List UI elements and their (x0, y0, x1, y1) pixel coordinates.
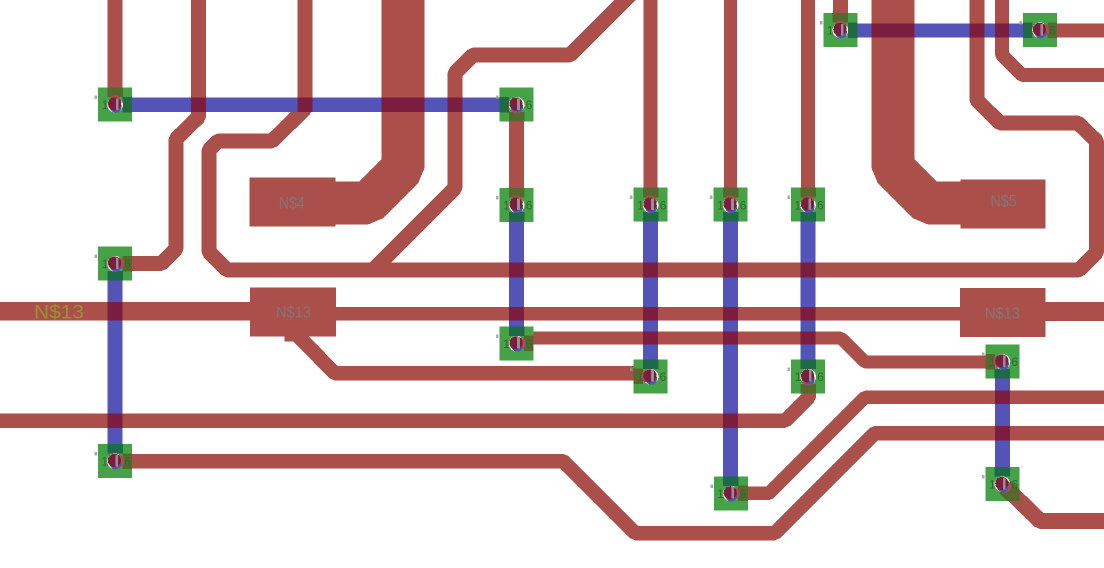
junction overlap y270 band (509, 263, 524, 278)
wire bottom-layer pad P7 to pad P14 (723, 205, 738, 494)
svg-text:6: 6 (1049, 24, 1056, 38)
svg-text:6: 6 (124, 257, 131, 271)
svg-text:6: 6 (1011, 478, 1018, 492)
wire top-layer into pad P1 (108, 0, 123, 105)
wire top-layer wide bus right (893, 0, 962, 203)
junction overlap y420 band (108, 413, 123, 428)
svg-text:N$13: N$13 (34, 302, 84, 323)
junction overlap y270 band (643, 263, 658, 278)
wire top-layer into pad P3 (833, 0, 848, 30)
junction overlap N$13 band (509, 307, 524, 321)
wire top-layer pad P11 to pad P15 (517, 338, 1003, 362)
pad P2 (through-hole via) (496, 88, 534, 122)
wire top-layer vertical x198 jog to pad P9 (115, 0, 199, 264)
svg-text:6: 6 (526, 198, 533, 212)
svg-text:N$13: N$13 (276, 304, 311, 321)
wire top-layer wide bus left (334, 0, 403, 203)
svg-text:6: 6 (660, 370, 667, 384)
svg-text:6: 6 (740, 487, 747, 501)
pad P4 (through-hole via) (1020, 13, 1058, 47)
wire top-layer pad P14 to band y397 (731, 397, 1104, 493)
wire net N$13 horizontal middle (330, 307, 965, 321)
junction overlap y270 band (723, 263, 738, 278)
junction overlap y420 band (723, 413, 738, 428)
wire bottom-layer pad P15 to pad P16 (995, 362, 1010, 485)
junction overlap (382, 97, 425, 112)
svg-text:6: 6 (526, 337, 533, 351)
svg-text:6: 6 (1011, 355, 1018, 369)
pad P7 (through-hole via) (710, 188, 748, 222)
svg-text:6: 6 (124, 455, 131, 469)
wire top-layer into pad P7 (724, 0, 737, 205)
net label block N$13 right (960, 288, 1046, 337)
junction overlap N$13 band (723, 307, 738, 321)
wire top-layer from pad P4 to right edge (1040, 24, 1104, 38)
wire bottom-layer pad P6 to pad P12 (643, 205, 658, 377)
pad P14 (through-hole via) (710, 476, 748, 510)
pad P9 (through-hole via) (95, 247, 133, 281)
junction overlap band2 (723, 332, 738, 345)
pad P3 (through-hole via) (820, 13, 858, 47)
wire bottom-layer pad P3 to pad P4 (840, 24, 1040, 38)
junction overlap band4 (995, 426, 1010, 441)
wire top-layer band y420 to pad P13 (0, 376, 809, 420)
wire bottom-layer pad P9 to pad P10 (108, 264, 123, 461)
pad P13 (through-hole via) (788, 359, 826, 393)
pad P10 (through-hole via) (95, 444, 133, 478)
wire top-layer big loop y270 (209, 0, 1097, 270)
junction overlap band2 (801, 332, 816, 345)
net label block N$13 left (250, 288, 336, 337)
pad P12 (through-hole via) (630, 359, 668, 393)
wire bottom-layer pad P5 to pad P11 (509, 205, 524, 344)
svg-text:6: 6 (817, 370, 824, 384)
junction overlap (448, 97, 463, 112)
svg-text:N$4: N$4 (279, 193, 305, 212)
junction overlap N$13 band (108, 302, 123, 321)
junction overlap (995, 24, 1009, 38)
wire bottom-layer pad P8 to pad P13 (801, 205, 816, 377)
wire net N$13 horizontal right (1041, 302, 1104, 321)
wire top-layer pad P2 to pad P5 (509, 105, 524, 205)
svg-text:6: 6 (740, 198, 747, 212)
wire top-layer pad P16 to bottom right (1002, 484, 1104, 521)
wire net N$13 horizontal left (0, 302, 255, 321)
svg-text:N$13: N$13 (985, 306, 1020, 323)
pad P11 (through-hole via) (496, 326, 534, 360)
wire top-layer branch x455 to top (371, 0, 633, 272)
pad P6 (through-hole via) (630, 188, 668, 222)
net label block N$5 (960, 180, 1045, 229)
svg-text:6: 6 (660, 198, 667, 212)
pad P8 (through-hole via) (788, 188, 826, 222)
wire top-layer into pad P8 (801, 0, 815, 205)
pad P15 (through-hole via) (982, 345, 1020, 379)
net label block N$4 (250, 177, 336, 226)
junction overlap (969, 24, 984, 38)
wire top-layer N$13 stub to pad P12 (296, 334, 651, 373)
junction overlap (872, 24, 915, 38)
wire stub below N$13 label (285, 332, 309, 342)
junction overlap y270 band (801, 263, 816, 278)
junction overlap band3 (995, 391, 1010, 405)
wire top-layer into pad P6 (644, 0, 658, 205)
wire bottom-layer pad P1 to pad P2 (115, 97, 517, 112)
wire top-layer pad P10 long run to right edge (115, 433, 1104, 533)
pad P16 (through-hole via) (982, 467, 1020, 501)
pad P5 (through-hole via) (496, 188, 534, 222)
svg-text:6: 6 (817, 198, 824, 212)
svg-text:6: 6 (526, 98, 533, 112)
pad P1 (through-hole via) (95, 88, 133, 122)
junction overlap (191, 97, 206, 112)
junction overlap (297, 97, 312, 112)
junction overlap N$13 band (801, 307, 816, 321)
svg-text:6: 6 (124, 98, 131, 112)
svg-text:6: 6 (849, 24, 856, 38)
svg-text:N$5: N$5 (990, 192, 1017, 211)
junction overlap band2 (643, 332, 658, 345)
wire top-layer x1002 bend to right edge (1002, 0, 1104, 75)
junction overlap N$13 band (643, 307, 658, 321)
